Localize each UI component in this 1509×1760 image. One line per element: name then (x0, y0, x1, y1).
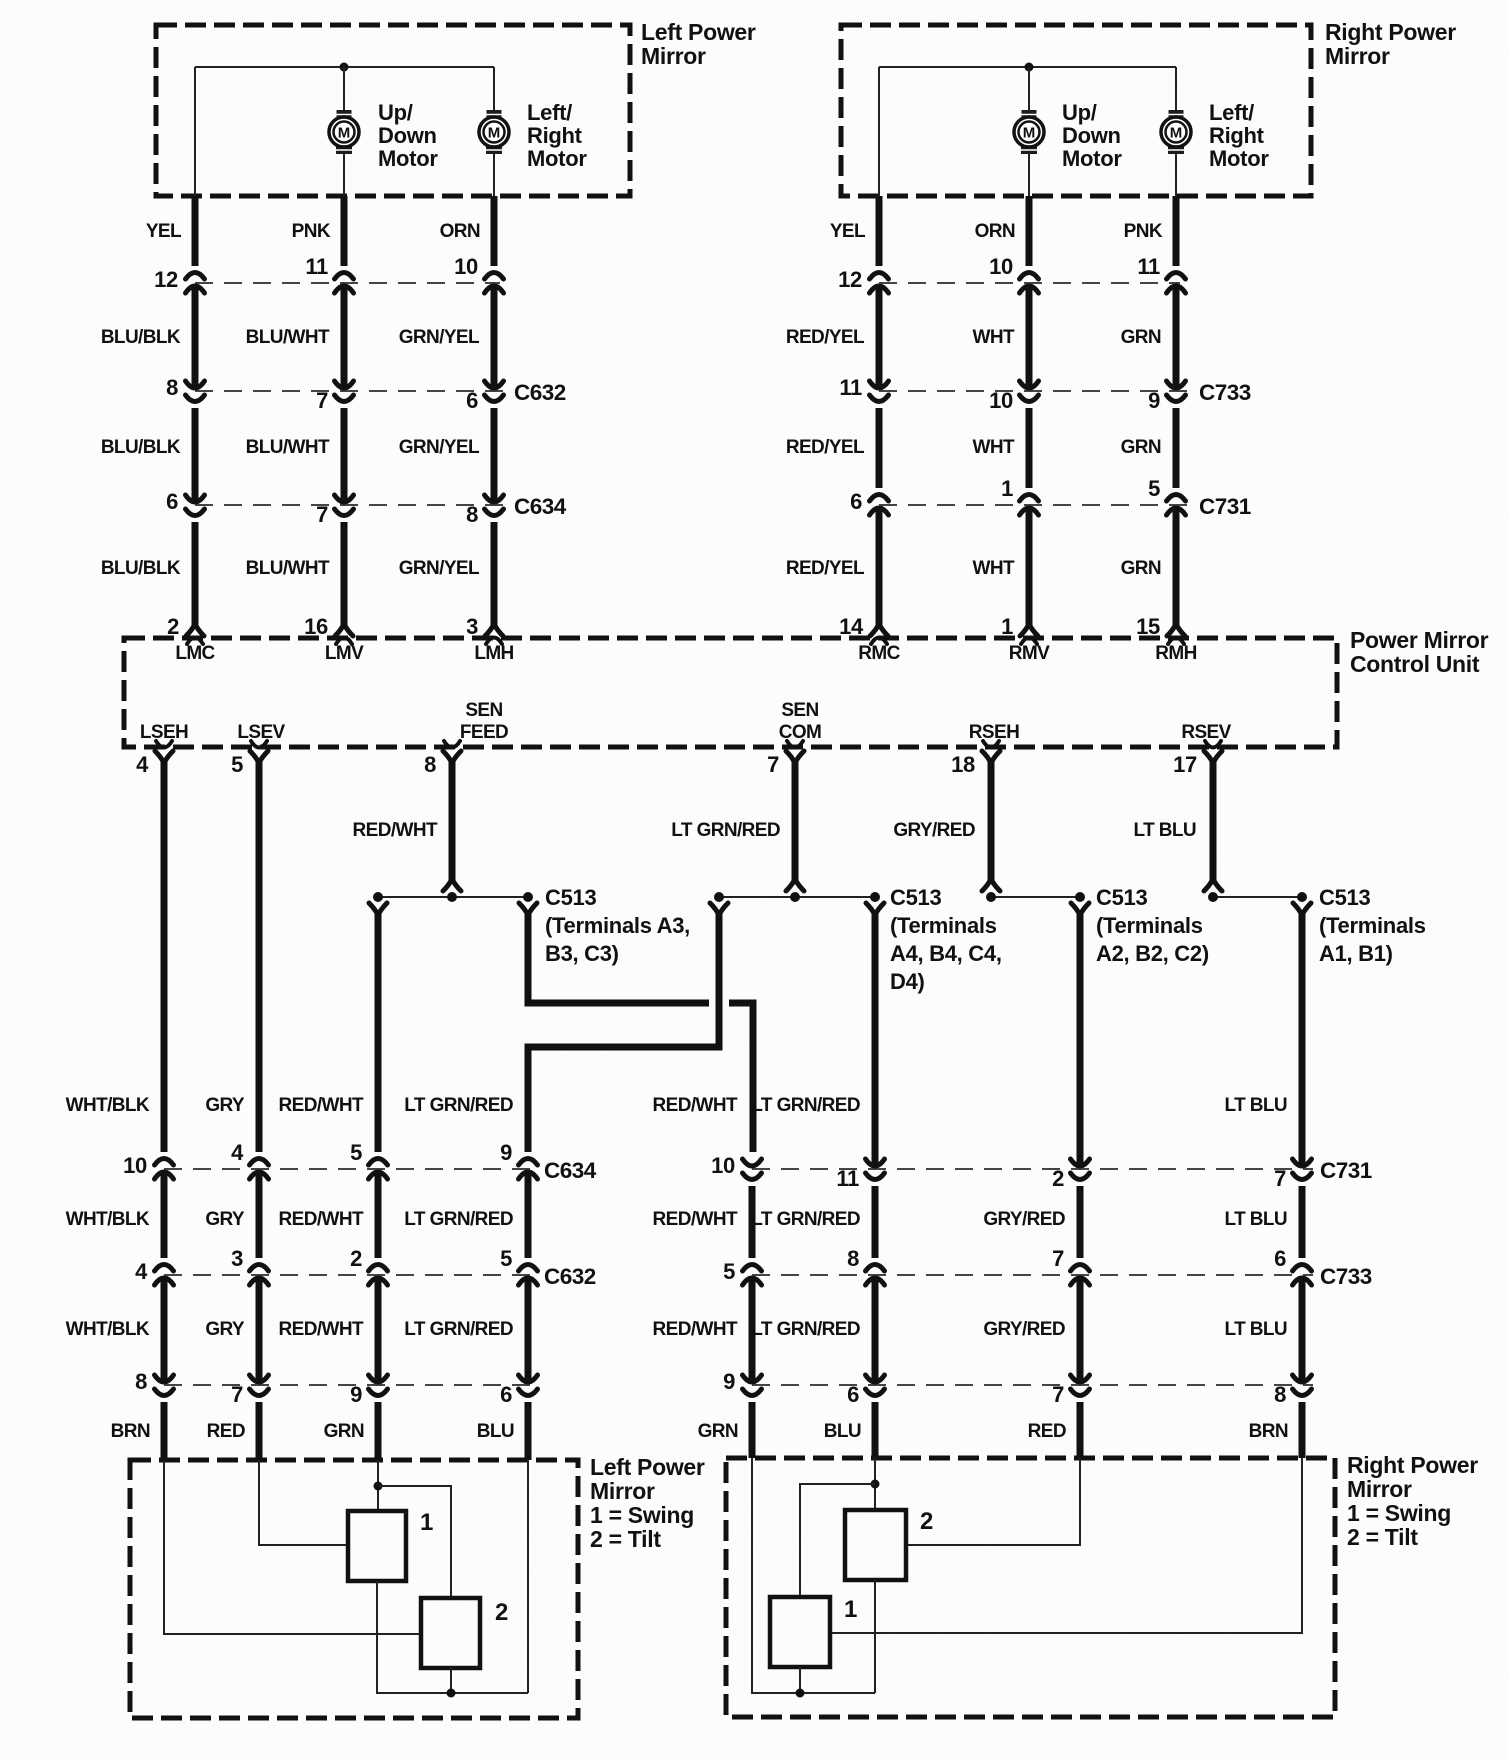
connector mirror row right dashed line (752, 1384, 1313, 1386)
svg-text:GRN: GRN (1121, 327, 1161, 348)
svg-text:5: 5 (500, 1246, 512, 1271)
connector C731 pin 5 (1167, 495, 1186, 502)
connector C632 lower pin 3 (250, 1265, 269, 1272)
connector C513 line (378, 896, 528, 898)
svg-text:11: 11 (1137, 254, 1160, 279)
connector C513 feed fork (443, 879, 461, 891)
wire BLU/WHT C632 to C634 col2 (341, 408, 348, 504)
wire left up/down motor leads (343, 67, 345, 110)
svg-text:10: 10 (454, 254, 478, 279)
svg-text:RED/WHT: RED/WHT (653, 1095, 738, 1116)
connector C513 feed fork (1204, 879, 1222, 891)
svg-text:BLU/WHT: BLU/WHT (246, 558, 330, 579)
svg-text:WHT: WHT (973, 327, 1015, 348)
svg-text:RMV: RMV (1009, 643, 1050, 664)
wire BRN inside left (164, 1460, 421, 1634)
svg-text:B3, C3): B3, C3) (545, 941, 619, 966)
svg-text:7: 7 (1052, 1382, 1064, 1407)
svg-text:M: M (338, 125, 351, 142)
wire LT GRN/RED C632 to mirror conn col4 (525, 1276, 532, 1384)
svg-text:1: 1 (1001, 476, 1013, 501)
wire RED/YEL row1 to C733 col1 (876, 284, 883, 390)
wire GRN/YEL C632 to C634 col3 (491, 408, 498, 504)
svg-text:12: 12 (838, 267, 862, 292)
wire RED/WHT SEN FEED down (449, 762, 456, 884)
wire right up/down motor leads (1028, 67, 1030, 110)
svg-text:GRY: GRY (205, 1095, 245, 1116)
wire RED/YEL C731 to control unit col1 (876, 506, 883, 625)
svg-text:BLU/BLK: BLU/BLK (101, 327, 181, 348)
connector C632 lower pin 4 (155, 1265, 174, 1272)
wire LT GRN/RED C731 to C733 col2 (872, 1186, 879, 1258)
wire LT BLU C731 to C733 col4 (1299, 1186, 1306, 1258)
svg-text:C634: C634 (544, 1158, 597, 1183)
svg-text:Motor: Motor (1209, 146, 1269, 171)
wire GRN inside right (752, 1458, 875, 1693)
connector C513 lower cup (1293, 903, 1311, 915)
svg-text:6: 6 (466, 388, 478, 413)
svg-text:BLU/BLK: BLU/BLK (101, 558, 181, 579)
svg-text:16: 16 (304, 614, 328, 639)
svg-text:6: 6 (500, 1382, 512, 1407)
svg-text:C632: C632 (544, 1264, 596, 1289)
svg-text:LT GRN/RED: LT GRN/RED (751, 1095, 860, 1116)
wire ORN right mirror to row1 col2 (1026, 196, 1033, 266)
motor right up/down body (1014, 117, 1044, 147)
control unit bottom pin 18 (983, 741, 999, 748)
left power mirror box (156, 25, 630, 196)
svg-text:RED/WHT: RED/WHT (279, 1095, 364, 1116)
connector C632 lower pin 2 (369, 1265, 388, 1272)
wire RED inside left (259, 1460, 348, 1545)
svg-text:LSEH: LSEH (140, 722, 188, 743)
svg-text:3: 3 (466, 614, 478, 639)
wire RED to left mirror (256, 1402, 263, 1460)
svg-text:A2, B2, C2): A2, B2, C2) (1096, 941, 1209, 966)
svg-text:Power Mirror: Power Mirror (1350, 627, 1489, 653)
svg-text:11: 11 (836, 1166, 859, 1191)
svg-text:2 = Tilt: 2 = Tilt (590, 1526, 661, 1552)
wire GRY C632 to mirror conn col2 (256, 1276, 263, 1384)
svg-text:WHT/BLK: WHT/BLK (66, 1209, 150, 1230)
svg-text:(Terminals A3,: (Terminals A3, (545, 913, 690, 938)
motor right left/right body (1161, 117, 1191, 147)
control unit top pin 2 left (186, 624, 204, 636)
svg-text:GRN: GRN (1121, 558, 1161, 579)
swing motor box 1 left (348, 1511, 406, 1581)
connector C634 lower pin 10 (155, 1159, 174, 1166)
wire LSEH down (161, 762, 168, 1152)
node tilt bottom junction left (447, 1689, 456, 1698)
connector C632 dashed line (195, 390, 505, 392)
wire RED/YEL C733 to C731 col1 (876, 408, 883, 488)
svg-text:Down: Down (1062, 123, 1121, 148)
connector C513 lower cup (1071, 903, 1089, 915)
control unit bottom pin 17 (1205, 741, 1221, 748)
connector C733 lower pin 5 (743, 1265, 762, 1272)
svg-text:2: 2 (1052, 1166, 1064, 1191)
svg-text:Up/: Up/ (378, 100, 413, 125)
wire LT BLU RSEV down (1210, 762, 1217, 884)
wire YEL left mirror to C631 row1 col1 (192, 196, 199, 266)
connector mirror pin 8 right (1293, 1375, 1312, 1382)
svg-text:10: 10 (989, 388, 1013, 413)
wire GRY/RED group3 down (1077, 913, 1084, 1168)
svg-text:5: 5 (1148, 476, 1160, 501)
wire LSEV down (256, 762, 263, 1152)
right power mirror lower box (726, 1458, 1335, 1717)
right mirror feed wire (879, 66, 1176, 68)
control unit bottom pin 8 (444, 741, 460, 748)
connector mirror pin 6 left (519, 1375, 538, 1382)
connector C731 lower pin 10 (743, 1159, 762, 1166)
svg-text:A4, B4, C4,: A4, B4, C4, (890, 941, 1002, 966)
svg-text:(Terminals: (Terminals (1096, 913, 1203, 938)
svg-text:C731: C731 (1199, 494, 1251, 519)
svg-text:C634: C634 (514, 494, 567, 519)
wire RED/WHT crossover (528, 913, 709, 1003)
wire WHT C733 to C731 col2 (1026, 408, 1033, 488)
node right mirror feed junction (1025, 63, 1034, 72)
svg-text:5: 5 (231, 752, 243, 777)
svg-text:RED/YEL: RED/YEL (786, 327, 865, 348)
svg-text:M: M (1170, 125, 1183, 142)
wire LT GRN/RED C733 to mirror conn col2 (872, 1276, 879, 1384)
svg-text:GRN: GRN (324, 1421, 364, 1442)
wire RED inside right (906, 1458, 1080, 1545)
connector C513 line (1213, 896, 1302, 898)
node left mirror feed junction (340, 63, 349, 72)
svg-text:RED: RED (207, 1421, 245, 1442)
connector C733 pin 10 (1020, 381, 1039, 388)
svg-text:C513: C513 (890, 885, 941, 910)
motor right up/down brushes (1022, 110, 1037, 119)
left mirror feed wire (195, 66, 494, 68)
control unit bottom pin 7 (787, 741, 803, 748)
svg-text:Left/: Left/ (1209, 100, 1254, 125)
node BLU junction right (871, 1480, 880, 1489)
svg-text:Mirror: Mirror (641, 43, 706, 69)
wire PNK right mirror to row1 col3 (1173, 196, 1180, 266)
svg-text:LT GRN/RED: LT GRN/RED (404, 1319, 513, 1340)
svg-text:4: 4 (136, 752, 149, 777)
svg-text:RMC: RMC (858, 643, 900, 664)
wire GRY/RED C733 to mirror conn col3 (1077, 1276, 1084, 1384)
svg-text:FEED: FEED (460, 722, 508, 743)
svg-text:10: 10 (711, 1153, 735, 1178)
connector C733 lower pin 6 (1293, 1265, 1312, 1272)
connector C632 pin 8 (186, 381, 205, 388)
svg-text:GRN: GRN (1121, 437, 1161, 458)
connector C513 lower cup (710, 903, 728, 915)
wire GRY/RED C731 to C733 col3 (1077, 1186, 1084, 1258)
motor right left/right brushes (1169, 110, 1184, 119)
svg-text:2: 2 (920, 1508, 933, 1535)
svg-text:RED/WHT: RED/WHT (279, 1319, 364, 1340)
svg-text:M: M (1023, 125, 1036, 142)
connector C634 lower pin 9 (519, 1159, 538, 1166)
svg-text:RED/YEL: RED/YEL (786, 558, 865, 579)
wire LT GRN/RED SEN COM down (792, 762, 799, 884)
tilt motor box 2 left (421, 1598, 480, 1668)
svg-text:7: 7 (316, 388, 328, 413)
svg-text:9: 9 (723, 1369, 735, 1394)
connector C733 lower dashed line (752, 1274, 1313, 1276)
motor left left/right body (479, 117, 509, 147)
wire BRN to left mirror (161, 1402, 168, 1460)
svg-text:7: 7 (767, 752, 779, 777)
wire WHT row1 to C733 col2 (1026, 284, 1033, 390)
wire tilt bottom right (874, 1580, 876, 1693)
wire GRY C634 to C632 col2 (256, 1170, 263, 1258)
connector mirror pin 7 right (1071, 1375, 1090, 1382)
tilt motor box 2 right (845, 1510, 906, 1580)
svg-text:WHT/BLK: WHT/BLK (66, 1095, 150, 1116)
wire RED/WHT C634 to C632 col3 (375, 1170, 382, 1258)
wire GRN row1 to C733 col3 (1173, 284, 1180, 390)
svg-text:9: 9 (1148, 388, 1160, 413)
svg-text:RSEH: RSEH (969, 722, 1019, 743)
svg-text:2 = Tilt: 2 = Tilt (1347, 1524, 1418, 1550)
wire BLU/BLK row1 to C632 col1 (192, 284, 199, 390)
svg-text:6: 6 (847, 1382, 859, 1407)
svg-text:3: 3 (231, 1246, 243, 1271)
svg-text:YEL: YEL (146, 221, 182, 242)
connector C513 line (991, 896, 1080, 898)
motor left left/right brushes (487, 110, 502, 119)
svg-text:11: 11 (839, 375, 862, 400)
svg-text:C513: C513 (545, 885, 596, 910)
svg-text:ORN: ORN (975, 221, 1015, 242)
svg-text:RED/WHT: RED/WHT (353, 820, 438, 841)
svg-text:9: 9 (500, 1140, 512, 1165)
svg-text:2: 2 (167, 614, 179, 639)
svg-text:BLU: BLU (477, 1421, 514, 1442)
svg-text:LT BLU: LT BLU (1133, 820, 1196, 841)
wire WHT/BLK C634 to C632 col1 (161, 1170, 168, 1258)
svg-text:M: M (488, 125, 501, 142)
control unit bottom pin 4 (156, 741, 172, 748)
svg-text:Up/: Up/ (1062, 100, 1097, 125)
wire GRY/RED RSEH down (988, 762, 995, 884)
connector C733 lower pin 7 (1071, 1265, 1090, 1272)
svg-text:GRN/YEL: GRN/YEL (399, 437, 480, 458)
connector mirror pin 9 left (369, 1375, 388, 1382)
wire BRN inside right (830, 1458, 1302, 1633)
svg-text:15: 15 (1136, 614, 1160, 639)
svg-text:BLU/WHT: BLU/WHT (246, 327, 330, 348)
svg-text:LT GRN/RED: LT GRN/RED (751, 1319, 860, 1340)
svg-text:10: 10 (123, 1153, 147, 1178)
wire GRN/YEL row1 to C632 col3 (491, 284, 498, 390)
svg-text:BRN: BRN (111, 1421, 150, 1442)
svg-text:7: 7 (231, 1382, 243, 1407)
svg-text:9: 9 (350, 1382, 362, 1407)
connector row1 left pin 12 (186, 273, 205, 280)
control unit top pin 15 right (1167, 624, 1185, 636)
svg-text:Control Unit: Control Unit (1350, 651, 1480, 677)
svg-text:LT GRN/RED: LT GRN/RED (404, 1209, 513, 1230)
wire GRN to right mirror (749, 1402, 756, 1458)
svg-text:WHT: WHT (973, 437, 1015, 458)
connector C731 lower pin 2 (1071, 1159, 1090, 1166)
svg-text:C513: C513 (1096, 885, 1147, 910)
svg-text:Left/: Left/ (527, 100, 572, 125)
wire RED/WHT C731 to C733 col1 (749, 1186, 756, 1258)
svg-text:11: 11 (305, 254, 328, 279)
control unit top pin 16 left (335, 624, 353, 636)
wire GRN/YEL C634 to control unit col3 (491, 522, 498, 625)
connector C733 pin 9 (1167, 381, 1186, 388)
connector C634 lower dashed line (164, 1168, 536, 1170)
connector C731 lower pin 11 (866, 1159, 885, 1166)
node GRN junction left (374, 1482, 383, 1491)
wire BLU to left mirror (525, 1402, 532, 1460)
connector mirror pin 8 left (155, 1375, 174, 1382)
svg-text:Motor: Motor (1062, 146, 1122, 171)
svg-text:2: 2 (350, 1246, 362, 1271)
motor left up/down brushes (337, 110, 352, 119)
wire GRN C733 to C731 col3 (1173, 408, 1180, 488)
svg-text:RED/WHT: RED/WHT (279, 1209, 364, 1230)
svg-text:COM: COM (779, 722, 822, 743)
connector row1 right pin 10 (1020, 273, 1039, 280)
svg-text:1 = Swing: 1 = Swing (590, 1502, 694, 1528)
connector C731 lower pin 7 (1293, 1159, 1312, 1166)
wire LT GRN/RED C634 to C632 col4 (525, 1170, 532, 1258)
svg-text:7: 7 (1274, 1166, 1286, 1191)
connector C513 lower cup (519, 903, 537, 915)
svg-text:ORN: ORN (440, 221, 480, 242)
connector mirror pin 7 left (250, 1375, 269, 1382)
connector C513 lower cup (866, 903, 884, 915)
svg-text:C513: C513 (1319, 885, 1370, 910)
wire BLU branch to swing right (800, 1484, 875, 1597)
svg-text:LT BLU: LT BLU (1224, 1095, 1287, 1116)
wire WHT/BLK C632 to mirror conn col1 (161, 1276, 168, 1384)
svg-text:C632: C632 (514, 380, 566, 405)
control unit bottom pin 5 (251, 741, 267, 748)
svg-text:Motor: Motor (378, 146, 438, 171)
wire RED to right mirror (1077, 1402, 1084, 1458)
svg-text:LT GRN/RED: LT GRN/RED (751, 1209, 860, 1230)
connector C731 dashed line (879, 504, 1190, 506)
svg-text:Motor: Motor (527, 146, 587, 171)
connector C733 pin 11 (870, 381, 889, 388)
left power mirror lower box (130, 1460, 578, 1718)
svg-text:RMH: RMH (1155, 643, 1196, 664)
svg-text:Right: Right (1209, 123, 1265, 148)
right power mirror box (841, 25, 1311, 196)
svg-text:7: 7 (1052, 1246, 1064, 1271)
svg-text:1: 1 (844, 1596, 857, 1623)
wire WHT C731 to control unit col2 (1026, 506, 1033, 625)
svg-text:SEN: SEN (465, 700, 502, 721)
connector C634 pin 7 (335, 495, 354, 502)
connector C513 lower cup (369, 903, 387, 915)
svg-text:GRN: GRN (698, 1421, 738, 1442)
svg-text:Mirror: Mirror (1347, 1476, 1412, 1502)
svg-text:4: 4 (231, 1140, 244, 1165)
connector mirror row left dashed line (164, 1384, 536, 1386)
control unit top pin 1 right (1020, 624, 1038, 636)
svg-text:RED: RED (1028, 1421, 1066, 1442)
svg-text:6: 6 (1274, 1246, 1286, 1271)
wire LT BLU group4 down (1299, 913, 1306, 1168)
svg-text:8: 8 (135, 1369, 147, 1394)
connector C513 feed fork (982, 879, 1000, 891)
connector C731 pin 1 (1020, 495, 1039, 502)
node swing bottom junction right (796, 1689, 805, 1698)
wire tilt bottom left (450, 1668, 452, 1693)
svg-text:5: 5 (350, 1140, 362, 1165)
connector row1 right pin 11 (1167, 273, 1186, 280)
connector C634 pin 6 (186, 495, 205, 502)
wire GRN branch to tilt (378, 1486, 451, 1598)
connector mirror pin 9 right (743, 1375, 762, 1382)
wire BLU/BLK C634 to control unit col1 (192, 522, 199, 625)
wire YEL right mirror to row1 col1 (876, 196, 883, 266)
svg-text:6: 6 (850, 489, 862, 514)
svg-text:(Terminals: (Terminals (890, 913, 997, 938)
svg-text:1 = Swing: 1 = Swing (1347, 1500, 1451, 1526)
svg-text:5: 5 (723, 1259, 735, 1284)
connector C634 lower pin 5 (369, 1159, 388, 1166)
svg-text:Right Power: Right Power (1347, 1452, 1478, 1478)
svg-text:LT GRN/RED: LT GRN/RED (404, 1095, 513, 1116)
svg-text:10: 10 (989, 254, 1013, 279)
motor left up/down body (329, 117, 359, 147)
svg-text:GRY: GRY (205, 1319, 245, 1340)
svg-text:RED/YEL: RED/YEL (786, 437, 865, 458)
svg-text:7: 7 (316, 502, 328, 527)
wire BLU inside left (527, 1460, 529, 1693)
svg-text:4: 4 (135, 1259, 148, 1284)
swing motor box 1 right (770, 1597, 830, 1667)
svg-text:SEN: SEN (781, 700, 818, 721)
svg-text:GRN/YEL: GRN/YEL (399, 327, 480, 348)
svg-text:YEL: YEL (830, 221, 866, 242)
svg-text:D4): D4) (890, 969, 925, 994)
wire BLU/BLK C632 to C634 col1 (192, 408, 199, 504)
wire left left/right motor leads (493, 67, 495, 110)
svg-text:14: 14 (839, 614, 864, 639)
svg-text:LT BLU: LT BLU (1224, 1319, 1287, 1340)
svg-text:8: 8 (466, 502, 478, 527)
connector row1 right pin 12 (870, 273, 889, 280)
svg-text:RED/WHT: RED/WHT (653, 1319, 738, 1340)
connector row1 left pin 11 (335, 273, 354, 280)
svg-text:GRY/RED: GRY/RED (983, 1319, 1065, 1340)
svg-text:Right Power: Right Power (1325, 19, 1456, 45)
svg-text:LSEV: LSEV (237, 722, 285, 743)
wire BLU to right mirror (872, 1402, 879, 1458)
control unit top pin 3 left (485, 624, 503, 636)
svg-text:Right: Right (527, 123, 583, 148)
svg-text:WHT: WHT (973, 558, 1015, 579)
connector C731 lower dashed line (752, 1168, 1313, 1170)
wire swing bottom left (377, 1581, 528, 1693)
svg-text:A1, B1): A1, B1) (1319, 941, 1393, 966)
wire LT BLU C733 to mirror conn col4 (1299, 1276, 1306, 1384)
svg-text:1: 1 (1001, 614, 1013, 639)
svg-text:BLU/WHT: BLU/WHT (246, 437, 330, 458)
svg-text:PNK: PNK (292, 221, 331, 242)
svg-text:Left Power: Left Power (641, 19, 756, 45)
svg-text:1: 1 (420, 1509, 433, 1536)
svg-text:8: 8 (424, 752, 436, 777)
svg-text:C733: C733 (1199, 380, 1251, 405)
